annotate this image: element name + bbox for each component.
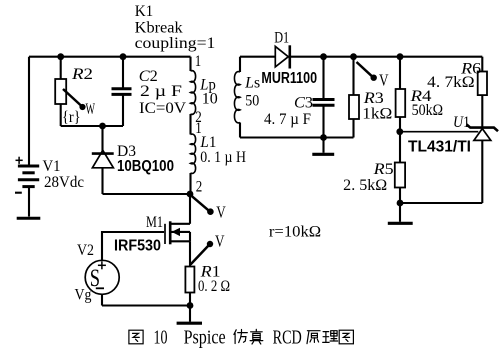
wire R5 top lead [399, 132, 401, 163]
battery V1 minus mark [15, 192, 22, 194]
wire bottom return rail [102, 304, 190, 306]
source V2 minus mark [96, 287, 104, 289]
node junction R3 top [350, 53, 357, 60]
wire top rail secondary left [240, 56, 275, 58]
wire C3 top lead [322, 57, 324, 99]
svg-text:M1: M1 [146, 214, 163, 231]
svg-text:4. 7 µ F: 4. 7 µ F [264, 111, 311, 128]
svg-text:MUR1100: MUR1100 [261, 70, 317, 87]
wire drain lead [189, 194, 191, 224]
wire C3 bottom lead [322, 106, 324, 137]
wire R4 bottom lead [399, 117, 401, 132]
inductor Ls [234, 72, 240, 123]
wire R3 bottom lead [352, 119, 354, 138]
source V2 circle [85, 260, 119, 294]
wire top rail primary [29, 56, 191, 58]
svg-text:1: 1 [195, 53, 202, 70]
resistor R2 wiper arrow [63, 89, 86, 110]
svg-text:IC=0V: IC=0V [139, 100, 187, 117]
node junction secondary ground [320, 134, 327, 141]
wire R3 top lead [352, 57, 354, 95]
wire R5 bottom lead [399, 188, 401, 204]
wire R2 bottom lead [60, 104, 62, 126]
svg-text:R3: R3 [363, 90, 384, 107]
resistor R2 body [55, 79, 66, 104]
svg-text:U1: U1 [453, 114, 470, 131]
wire Lp-L1 link [189, 114, 191, 135]
wire C2 top lead [122, 57, 124, 88]
wire R2-C2 bottom rail [61, 125, 123, 127]
wire Lp top lead [189, 57, 191, 71]
wire anode rail [400, 202, 482, 204]
svg-text:V: V [215, 232, 225, 251]
svg-text:C3: C3 [294, 94, 313, 111]
svg-text:10BQ100: 10BQ100 [117, 158, 174, 175]
ground below R5 [388, 203, 413, 223]
svg-text:0. 2 Ω: 0. 2 Ω [198, 278, 230, 295]
svg-text:r=10kΩ: r=10kΩ [269, 224, 321, 241]
diode D3 triangle [92, 150, 113, 168]
wire source lead [189, 241, 191, 266]
svg-text:V1: V1 [43, 158, 61, 175]
resistor R1 body [185, 267, 194, 293]
node junction D3 top [99, 123, 106, 130]
voltage probe at source [191, 241, 214, 265]
node junction C3 top [320, 53, 327, 60]
wire gate lead [102, 232, 164, 261]
svg-text:R2: R2 [71, 66, 93, 83]
svg-text:4. 7kΩ: 4. 7kΩ [427, 74, 474, 91]
wire V2 bottom lead [101, 294, 103, 305]
inductor Lp [191, 71, 196, 115]
wire Ls top lead [239, 57, 241, 72]
svg-text:R5: R5 [373, 161, 394, 178]
wire C2 bottom lead [122, 96, 124, 127]
wire Ls bottom lead [239, 123, 241, 138]
svg-text:{r}: {r} [62, 109, 81, 126]
wire R4 top lead [399, 57, 401, 89]
resistor R6 body [478, 72, 487, 96]
node junction ref [396, 128, 403, 135]
svg-text:IRF530: IRF530 [114, 238, 161, 255]
wire R6 top lead [481, 57, 483, 72]
svg-text:2: 2 [196, 178, 203, 195]
wire TL431 ref lead [400, 131, 478, 133]
svg-text:Vg: Vg [75, 286, 92, 303]
node junction source return [187, 302, 194, 309]
battery V1 [18, 166, 39, 187]
svg-text:D1: D1 [274, 29, 289, 46]
ground below C3 [312, 138, 334, 155]
wire R1 bottom lead [189, 293, 191, 306]
svg-text:50kΩ: 50kΩ [412, 102, 444, 119]
resistor R3 body [349, 95, 359, 119]
svg-text:50: 50 [245, 92, 259, 109]
svg-text:10: 10 [202, 91, 218, 108]
svg-text:Pspice: Pspice [184, 327, 226, 349]
diode D3 cathode bar [92, 152, 114, 155]
svg-text:28Vdc: 28Vdc [44, 174, 84, 191]
wire R2 top lead [60, 57, 62, 79]
resistor R4 body [396, 89, 406, 117]
svg-text:1kΩ: 1kΩ [362, 106, 392, 123]
wire U1 cathode lead [481, 95, 483, 128]
node junction R4 top [397, 53, 404, 60]
voltage probe at drain [192, 196, 214, 215]
node junction C2 top [120, 53, 127, 60]
wire U1 anode lead [481, 140, 483, 203]
capacitor C2 [112, 89, 132, 95]
wire V1 bottom lead [28, 187, 30, 217]
source V2 plus mark [98, 261, 106, 269]
svg-text:TL431/TI: TL431/TI [408, 139, 471, 156]
node junction R2 top [57, 53, 64, 60]
svg-text:coupling=1: coupling=1 [135, 35, 216, 52]
ground below R1 [177, 306, 202, 324]
svg-text:Kbreak: Kbreak [135, 19, 183, 36]
caption: 图 10 Pspice 仿真 RCD 原理图 [129, 327, 354, 349]
svg-text:W: W [86, 101, 96, 118]
voltage probe at output [357, 62, 377, 81]
inductor L1 [191, 134, 196, 173]
wire D3 top lead [101, 126, 103, 152]
battery V1 plus mark [16, 157, 23, 164]
svg-text:2 µ F: 2 µ F [140, 83, 182, 100]
wire V1 top lead [28, 57, 30, 165]
svg-text:V: V [379, 70, 389, 89]
svg-text:10: 10 [154, 327, 168, 349]
wire top rail secondary right [290, 56, 483, 58]
TL431 U1 cathode bar [467, 124, 499, 131]
svg-text:RCD: RCD [273, 327, 302, 349]
svg-text:0. 1 µ H: 0. 1 µ H [200, 149, 246, 166]
node junction drain [187, 191, 194, 198]
svg-text:V: V [216, 203, 226, 222]
svg-text:Ls: Ls [244, 75, 260, 92]
svg-text:2. 5kΩ: 2. 5kΩ [343, 177, 387, 194]
wire bottom rail primary [103, 193, 191, 195]
diode D1 triangle [275, 46, 288, 67]
diode D1 cathode bar [288, 45, 291, 68]
svg-text:K1: K1 [135, 3, 154, 20]
resistor R5 body [395, 163, 405, 188]
TL431 U1 triangle [474, 129, 491, 141]
wire L1 bottom lead [189, 173, 191, 194]
wire D3 bottom lead [101, 168, 103, 194]
svg-text:V2: V2 [77, 242, 94, 259]
capacitor C3 [313, 100, 335, 106]
ground bar below V1 [17, 217, 41, 220]
mosfet M1 [165, 221, 190, 244]
wire bottom rail secondary [240, 136, 354, 138]
node junction anode [397, 200, 404, 207]
